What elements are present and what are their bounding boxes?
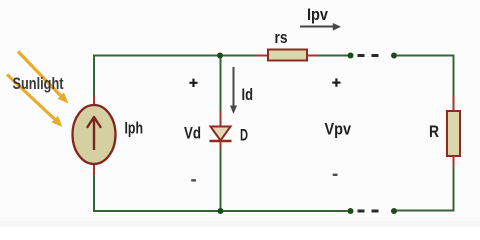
- arrow Id: [230, 67, 237, 114]
- diode D: [210, 127, 232, 142]
- svg-text:Iph: Iph: [125, 119, 144, 138]
- current source Iph: [73, 105, 116, 164]
- wire: R down to bottom bus: [396, 166, 454, 211]
- svg-text:Id: Id: [242, 85, 254, 104]
- wire: red lead diode cathode: [220, 141, 222, 150]
- wire: bottom break dashes: [358, 210, 379, 213]
- wire: red lead bottom of current source: [93, 164, 95, 175]
- wire: red lead diode anode: [220, 111, 222, 127]
- wire: top right to R: [396, 56, 454, 97]
- sunlight arrow 1: [18, 52, 69, 104]
- node: diode top junction: [217, 53, 223, 59]
- resistor rs: [255, 50, 317, 61]
- label minus left: [191, 179, 196, 181]
- svg-text:D: D: [240, 126, 248, 145]
- resistor R: [447, 111, 460, 156]
- wire: top bus from node A to rs: [94, 56, 255, 96]
- label minus right: [333, 174, 338, 176]
- arrow Ipv: [300, 23, 341, 31]
- node: diode bottom junction: [218, 208, 224, 214]
- wire: bottom bus to left: [94, 175, 348, 211]
- node: bottom break left dot: [348, 208, 354, 214]
- wire: rs to break dot: [317, 55, 348, 57]
- svg-text:Vd: Vd: [184, 124, 201, 143]
- wire: diode branch upper green: [220, 56, 222, 112]
- wire: red lead top of R: [453, 96, 455, 111]
- label plus right: [332, 78, 340, 86]
- label plus left: [189, 79, 197, 87]
- wire: diode branch lower green: [220, 150, 222, 211]
- wire: red lead top of current source: [93, 95, 95, 105]
- node: bottom break right dot: [391, 208, 397, 214]
- wire: red lead bottom of R: [453, 156, 455, 166]
- svg-text:rs: rs: [275, 28, 288, 47]
- svg-text:Sunlight: Sunlight: [13, 74, 64, 93]
- node: top break left dot: [348, 53, 354, 59]
- svg-text:R: R: [429, 122, 439, 141]
- wire: top break dashes: [358, 54, 379, 57]
- node: top break right dot: [391, 53, 397, 59]
- svg-text:Vpv: Vpv: [325, 120, 352, 139]
- svg-text:Ipv: Ipv: [307, 5, 328, 24]
- sunlight arrow 2: [7, 75, 63, 128]
